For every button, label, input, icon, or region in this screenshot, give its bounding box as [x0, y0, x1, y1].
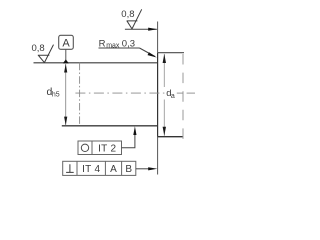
svg-text:a: a: [171, 93, 175, 100]
svg-text:B: B: [125, 164, 132, 175]
svg-text:A: A: [62, 38, 70, 50]
svg-text:IT 4: IT 4: [82, 164, 100, 175]
svg-text:0,8: 0,8: [121, 9, 134, 20]
svg-text:IT 2: IT 2: [98, 144, 116, 155]
svg-text:0,8: 0,8: [32, 43, 45, 54]
svg-text:A: A: [110, 164, 117, 175]
svg-text:h5: h5: [52, 91, 60, 98]
